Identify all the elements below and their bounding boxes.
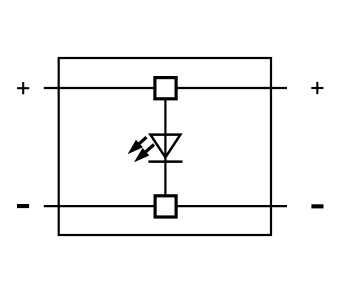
polarity label: right - <box>311 204 323 208</box>
LED emission arrow 1 (upper) <box>128 137 147 154</box>
wire: top conductor (+) <box>44 87 287 89</box>
LED anode triangle <box>150 135 180 158</box>
LED emission arrow 2 (lower) <box>134 145 154 163</box>
wire: bottom conductor (-) <box>44 205 287 207</box>
LED cathode bar <box>148 160 182 163</box>
polarity label: left - <box>17 204 29 208</box>
polarity label: right + <box>311 82 323 94</box>
wire: vertical link between clamp points <box>164 98 166 196</box>
clamp contact: top square <box>155 78 176 99</box>
polarity label: left + <box>17 82 29 94</box>
terminal block housing outline <box>59 58 271 235</box>
clamp contact: bottom square <box>155 196 176 217</box>
